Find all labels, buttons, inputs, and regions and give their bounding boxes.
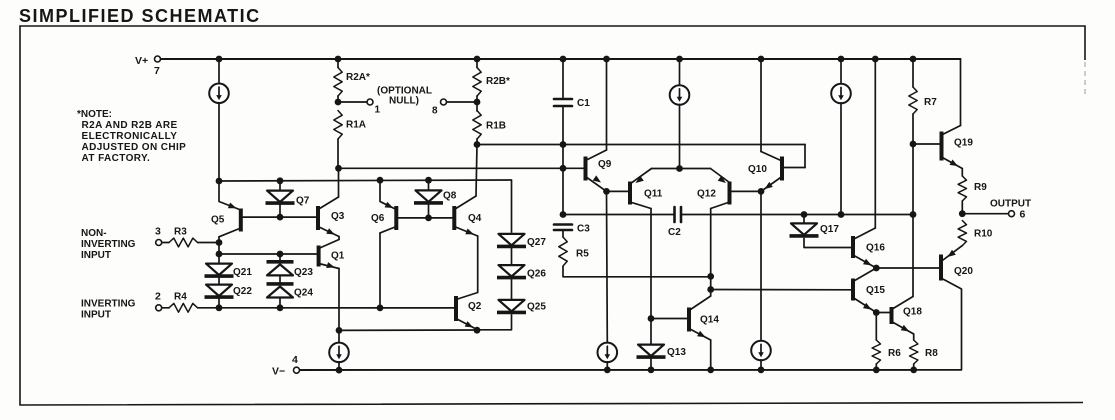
svg-text:R5: R5 bbox=[576, 249, 589, 260]
wire Q6 emitter diagonal bbox=[380, 180, 396, 209]
wire Q1 emitter drop bbox=[338, 269, 340, 331]
svg-text:3: 3 bbox=[155, 226, 161, 238]
svg-text:Q9: Q9 bbox=[598, 159, 612, 170]
wire Q25 to source rail bbox=[477, 314, 512, 330]
wire R8 bottom lead bbox=[913, 364, 915, 370]
svg-text:INVERTING: INVERTING bbox=[81, 299, 136, 310]
diode Q27 bbox=[497, 234, 526, 247]
wire pin 8 to R2B bbox=[447, 101, 477, 103]
wire Q21-Q22 bbox=[218, 278, 220, 284]
border right faint bbox=[1084, 62, 1086, 96]
svg-text:7: 7 bbox=[154, 65, 160, 77]
diode Q23 bbox=[267, 262, 294, 276]
svg-text:Q4: Q4 bbox=[468, 213, 482, 224]
junction Q3 collector / R1A / Q9-base wire bbox=[335, 165, 342, 172]
svg-text:Q7: Q7 bbox=[296, 196, 310, 207]
resistor R4 bbox=[169, 303, 198, 312]
transistor Q2 bbox=[456, 293, 478, 330]
junction rail / Q17 bbox=[801, 211, 808, 218]
svg-text:R1A: R1A bbox=[346, 120, 366, 131]
svg-text:R2A AND R2B ARE: R2A AND R2B ARE bbox=[82, 120, 178, 131]
wire Q8 anode bbox=[428, 180, 430, 189]
wire R6 bottom lead bbox=[875, 364, 877, 370]
wire I5 bottom lead bbox=[760, 360, 762, 370]
junction output node bbox=[959, 210, 966, 217]
junction V+ / Q16 collector bbox=[872, 56, 879, 63]
svg-text:Q11: Q11 bbox=[644, 189, 663, 200]
wire R1A bottom bbox=[337, 139, 339, 168]
svg-text:6: 6 bbox=[1020, 209, 1026, 221]
wire I6 bottom lead bbox=[338, 362, 340, 370]
junction Q6 collector / inverting wire bbox=[377, 305, 384, 312]
wire Q3 collector to Q9 base bbox=[339, 167, 586, 169]
wire Q19 base bbox=[913, 143, 942, 145]
wire load rail bbox=[219, 180, 512, 181]
wire Q17 to Q16 base bbox=[804, 238, 853, 248]
wire Q3 collector riser bbox=[338, 168, 340, 197]
diode Q17 bbox=[790, 223, 819, 236]
current source I6 bbox=[329, 343, 349, 363]
svg-text:Q10: Q10 bbox=[748, 164, 767, 175]
diode Q24 bbox=[267, 284, 294, 298]
svg-text:Q17: Q17 bbox=[820, 224, 839, 235]
wire Q2 base bbox=[380, 307, 456, 309]
wire I2 to pair node bbox=[679, 104, 681, 168]
wire R3 to Q5 collector bbox=[198, 242, 219, 244]
transistor Q20 bbox=[941, 246, 962, 289]
diode Q7 bbox=[266, 191, 295, 204]
wire C1 top lead bbox=[562, 59, 564, 99]
wire Q19 emitter to R9 bbox=[961, 169, 963, 177]
wire I6 top lead bbox=[338, 330, 340, 343]
svg-text:Q20: Q20 bbox=[954, 266, 973, 277]
svg-text:ELECTRONICALLY: ELECTRONICALLY bbox=[82, 131, 178, 142]
junction Q23 string / inverting wire bbox=[277, 304, 284, 311]
svg-text:INPUT: INPUT bbox=[81, 310, 111, 321]
wire Q9 emitter to Q11 base bbox=[607, 190, 629, 192]
junction rail / I3 bbox=[838, 211, 845, 218]
svg-text:NON-: NON- bbox=[81, 228, 107, 239]
resistor R2B bbox=[473, 68, 481, 97]
svg-text:R2A*: R2A* bbox=[346, 72, 370, 83]
wire Q14 base bbox=[651, 318, 689, 320]
junction R7 / Q19 base bbox=[910, 141, 917, 148]
wire pin2 to R4 bbox=[162, 307, 169, 309]
capacitor C1 bbox=[554, 99, 572, 106]
wire Q13 cathode bbox=[650, 359, 652, 370]
junction V- / R6 bbox=[873, 367, 880, 374]
svg-text:R3: R3 bbox=[174, 227, 187, 238]
wire C1 bottom lead bbox=[562, 106, 564, 145]
transistor Q10 bbox=[761, 152, 782, 192]
current source I1 bbox=[209, 84, 229, 104]
wire link R7 node to output rail bbox=[912, 144, 914, 215]
junction Q2 emitter / source rail bbox=[474, 327, 481, 334]
svg-text:*NOTE:: *NOTE: bbox=[77, 109, 112, 120]
junction source rail / I6 top bbox=[336, 327, 343, 334]
wire Q11 collector drop bbox=[650, 209, 652, 319]
resistor R7 bbox=[909, 87, 917, 114]
transistor Q12 bbox=[711, 182, 730, 209]
wire R6 top lead bbox=[875, 313, 877, 341]
transistor Q16 bbox=[853, 228, 876, 268]
capacitor C2 bbox=[675, 207, 682, 222]
junction Q16 emitter / Q15 collector bbox=[873, 265, 880, 272]
svg-text:4: 4 bbox=[292, 354, 298, 366]
wire Q5 base to Q7/Q3 bbox=[241, 216, 318, 218]
wire R2A-R1A bbox=[337, 96, 339, 102]
diode Q21 bbox=[205, 264, 234, 277]
svg-text:NULL): NULL) bbox=[389, 96, 419, 107]
transistor Q1 bbox=[319, 240, 339, 269]
junction V+ / R2A bbox=[335, 56, 342, 63]
wire I2 top lead bbox=[679, 59, 681, 86]
svg-text:Q3: Q3 bbox=[331, 211, 345, 222]
resistor R10 bbox=[958, 221, 966, 246]
wire Q10 collector riser bbox=[760, 59, 762, 152]
svg-text:ADJUSTED ON CHIP: ADJUSTED ON CHIP bbox=[82, 142, 187, 153]
wire Q17 anode bbox=[803, 215, 805, 223]
junction V+ / Q9 collector bbox=[603, 56, 610, 63]
wire I1 top lead bbox=[218, 59, 220, 84]
wire inverting rail bbox=[219, 307, 380, 309]
current source I5 (Q10 emitter) bbox=[751, 341, 771, 361]
wire output bbox=[962, 213, 1008, 215]
svg-text:Q15: Q15 bbox=[866, 285, 885, 296]
transistor Q5 bbox=[219, 209, 241, 237]
wire Q4 emitter to Q2 collector bbox=[477, 236, 479, 293]
svg-text:C1: C1 bbox=[577, 98, 590, 109]
wire Q3 emitter to Q1 collector bbox=[338, 237, 340, 240]
wire Q9 emitter to I4 bbox=[606, 191, 609, 343]
transistor Q3 bbox=[318, 197, 339, 237]
svg-text:Q8: Q8 bbox=[443, 191, 457, 202]
diode Q13 bbox=[637, 345, 666, 358]
svg-text:C3: C3 bbox=[577, 224, 590, 235]
junction V+ / R7 bbox=[910, 56, 917, 63]
junction Q9 base / C column bbox=[560, 165, 567, 172]
diode Q22 bbox=[205, 285, 234, 298]
svg-text:R2B*: R2B* bbox=[486, 76, 510, 87]
wire x563 link bbox=[562, 145, 564, 215]
junction load rail / Q6 emitter bbox=[377, 177, 384, 184]
svg-text:2: 2 bbox=[155, 291, 161, 303]
junction V+ / R2B bbox=[474, 56, 481, 63]
junction V+ / I1 bbox=[216, 56, 223, 63]
wire Q15 base bbox=[711, 289, 853, 291]
junction R2A/R1A/null-1 bbox=[335, 99, 342, 106]
wire Q27-Q26 bbox=[511, 248, 513, 264]
svg-text:Q27: Q27 bbox=[527, 237, 546, 248]
terminal pin 4 (V-) bbox=[294, 367, 300, 373]
wire R1B to Q4 collector bbox=[476, 145, 477, 197]
wire Q12 collector drop bbox=[710, 209, 712, 297]
svg-text:V−: V− bbox=[272, 366, 285, 378]
svg-text:Q23: Q23 bbox=[294, 267, 313, 278]
wire C3 node rail bbox=[563, 214, 675, 216]
svg-text:R8: R8 bbox=[925, 348, 938, 359]
resistor R9 bbox=[958, 176, 966, 201]
svg-text:Q2: Q2 bbox=[468, 301, 482, 312]
wire Q12 base bbox=[730, 190, 762, 192]
junction Q11 collector / Q14 base bbox=[648, 315, 655, 322]
junction V- / I4 bbox=[604, 367, 611, 374]
wire Q5 collector drop bbox=[218, 237, 220, 263]
wire wing right bbox=[680, 168, 711, 170]
wire Q23 top lead bbox=[279, 254, 281, 262]
transistor Q11 bbox=[630, 182, 651, 209]
junction I1 / Q5 emitter / load rail bbox=[216, 178, 223, 185]
svg-text:R1B: R1B bbox=[486, 121, 506, 132]
junction Q8 cathode bbox=[425, 215, 432, 222]
svg-text:Q5: Q5 bbox=[211, 215, 225, 226]
wire Q5 emitter diagonal bbox=[219, 181, 241, 210]
svg-text:8: 8 bbox=[432, 106, 438, 117]
wire bias rail bbox=[477, 144, 805, 146]
svg-text:Q21: Q21 bbox=[233, 267, 252, 278]
wire V+ rail bbox=[161, 58, 961, 60]
wire Q24 bottom lead bbox=[279, 298, 281, 308]
diode Q25 bbox=[497, 300, 526, 313]
junction V+ / C1 bbox=[560, 56, 567, 63]
wire R9 to output node bbox=[961, 201, 963, 214]
wire Q7 cathode bbox=[279, 205, 281, 217]
capacitor C3 bbox=[554, 225, 572, 231]
svg-text:Q18: Q18 bbox=[903, 307, 922, 318]
svg-text:AT FACTORY.: AT FACTORY. bbox=[82, 153, 151, 164]
wire R4 to Q21 node bbox=[198, 307, 219, 309]
junction Q9 emitter / Q11 base bbox=[603, 188, 610, 195]
resistor R1A bbox=[334, 111, 342, 140]
junction load rail / Q8 bbox=[425, 177, 432, 184]
junction V+ / Q10 collector bbox=[758, 56, 765, 63]
wire Q16 collector riser bbox=[874, 59, 876, 228]
svg-text:Q22: Q22 bbox=[233, 286, 252, 297]
svg-text:Q26: Q26 bbox=[527, 269, 546, 280]
wire R2A top lead bbox=[337, 59, 339, 68]
wire Q7 anode bbox=[279, 181, 281, 190]
wire Q1 base bbox=[219, 253, 319, 255]
svg-text:Q19: Q19 bbox=[954, 138, 973, 149]
terminal pin 3 bbox=[156, 240, 162, 246]
junction Q15 emitter / Q18 base bbox=[873, 309, 880, 316]
junction Q10 emitter / Q12 base bbox=[758, 188, 765, 195]
terminal pin 8 bbox=[441, 99, 447, 105]
svg-text:Q24: Q24 bbox=[294, 288, 313, 299]
wire Q6 collector drop bbox=[379, 233, 381, 308]
svg-text:Q1: Q1 bbox=[331, 251, 345, 262]
svg-text:R10: R10 bbox=[974, 229, 993, 240]
wire Q10 base riser bbox=[804, 145, 806, 168]
transistor Q18 bbox=[892, 297, 914, 335]
wire Q9 collector riser bbox=[606, 59, 608, 150]
junction R2B/R1B/null-8 bbox=[474, 99, 481, 106]
junction V+ / I3 bbox=[838, 56, 845, 63]
diode Q8 bbox=[414, 190, 443, 203]
junction Q21 string / inverting wire bbox=[216, 304, 223, 311]
wire Q18 emitter to R8 bbox=[913, 334, 915, 340]
junction V- / R8 bbox=[910, 367, 917, 374]
terminal pin 1 bbox=[367, 99, 373, 105]
junction V- / I6 bbox=[336, 367, 343, 374]
junction base wire / Q21 bbox=[216, 251, 223, 258]
svg-text:INVERTING: INVERTING bbox=[81, 239, 136, 250]
current source I4 (Q9 emitter) bbox=[598, 343, 618, 363]
wire Q10 emitter to I5 bbox=[760, 191, 762, 341]
resistor R2A bbox=[334, 68, 342, 97]
junction bias rail / C1 column bbox=[560, 141, 567, 148]
terminal pin 6 (OUTPUT) bbox=[1009, 211, 1015, 217]
svg-text:1: 1 bbox=[375, 105, 381, 116]
wire R7 top lead bbox=[912, 59, 914, 87]
junction V+ / tail source bbox=[676, 56, 683, 63]
wire I3 to rail bbox=[840, 103, 842, 215]
transistor Q9 bbox=[586, 150, 607, 191]
wire I4 bottom lead bbox=[606, 362, 608, 370]
wire Q11 emitter diagonal bbox=[632, 169, 652, 183]
wire Q20 collector to V- rail bbox=[914, 289, 962, 370]
svg-text:R6: R6 bbox=[888, 348, 901, 359]
resistor R5 bbox=[559, 237, 567, 266]
svg-text:R9: R9 bbox=[974, 182, 987, 193]
svg-text:V+: V+ bbox=[135, 55, 148, 67]
wire V- rail bbox=[300, 369, 914, 371]
current source I3 bbox=[831, 84, 851, 104]
wire Q10 base lead bbox=[782, 167, 805, 169]
junction R1B / bias rail bbox=[474, 141, 481, 148]
wire Q26-Q25 bbox=[511, 279, 513, 298]
transistor Q4 bbox=[454, 196, 477, 236]
junction R5 / Q12 collector bbox=[707, 273, 714, 280]
wire wing left bbox=[652, 168, 680, 170]
svg-text:Q12: Q12 bbox=[697, 189, 716, 200]
junction V- / I5 bbox=[758, 367, 765, 374]
transistor Q15 bbox=[853, 268, 876, 313]
diode Q26 bbox=[497, 265, 526, 278]
wire Q6 base to Q4 base bbox=[396, 217, 454, 219]
wire Q8 cathode bbox=[428, 205, 430, 218]
wire load rail to Q27 bbox=[511, 180, 513, 233]
svg-text:Q16: Q16 bbox=[866, 243, 885, 254]
wire Q12 emitter diagonal bbox=[711, 169, 730, 183]
wire R5 to Q12 collector bbox=[563, 266, 711, 277]
svg-text:INPUT: INPUT bbox=[81, 250, 111, 261]
junction rail / C3 top bbox=[560, 211, 567, 218]
svg-text:C2: C2 bbox=[668, 227, 681, 238]
wire I1 to Q5 emitter node bbox=[218, 103, 220, 181]
wire Q22 cathode bbox=[218, 299, 220, 308]
junction load rail / Q7 bbox=[277, 177, 284, 184]
junction tail node bbox=[676, 165, 683, 172]
junction Q14 collector / Q15 base wire bbox=[707, 286, 714, 293]
resistor R3 bbox=[169, 238, 198, 247]
junction Q7 cathode bbox=[277, 214, 284, 221]
wire R7 bottom lead bbox=[912, 114, 914, 144]
resistor R6 bbox=[872, 340, 880, 364]
wire Q18 collector riser bbox=[912, 215, 914, 297]
svg-text:Q25: Q25 bbox=[527, 302, 546, 313]
transistor Q19 bbox=[942, 126, 963, 169]
svg-text:Q6: Q6 bbox=[371, 213, 385, 224]
wire Q20 base bbox=[876, 267, 941, 269]
wire to null pin 1 bbox=[338, 101, 367, 103]
wire C2 right rail bbox=[681, 214, 913, 216]
terminal pin 2 bbox=[156, 305, 162, 311]
wire I3 top lead bbox=[840, 59, 842, 84]
wire Q18 base bbox=[876, 312, 891, 314]
junction Q5 collector / R3 bbox=[216, 239, 223, 246]
wire Q14 emitter drop bbox=[710, 340, 712, 370]
terminal pin 7 (V+) bbox=[155, 56, 161, 62]
junction V- / Q13 bbox=[648, 367, 655, 374]
wire Q19 collector riser bbox=[960, 59, 962, 126]
svg-text:R7: R7 bbox=[924, 97, 937, 108]
wire C3-R5 bbox=[562, 230, 564, 237]
svg-text:Q13: Q13 bbox=[667, 347, 686, 358]
wire Q13 anode bbox=[650, 319, 652, 344]
svg-text:Q14: Q14 bbox=[700, 315, 719, 326]
current source I2 bbox=[670, 85, 690, 105]
junction Q23 top bbox=[277, 251, 284, 258]
transistor Q14 bbox=[689, 296, 711, 340]
resistor R8 bbox=[910, 340, 918, 364]
junction V- / Q14 emitter bbox=[707, 367, 714, 374]
wire R1B bottom bbox=[476, 139, 478, 145]
svg-text:SIMPLIFIED SCHEMATIC: SIMPLIFIED SCHEMATIC bbox=[19, 6, 261, 26]
wire pin3 to R3 bbox=[162, 242, 169, 244]
wire Q23-Q24 bbox=[279, 276, 281, 284]
resistor R1B bbox=[473, 111, 481, 140]
wire R2B-R1B bbox=[476, 96, 478, 111]
wire source rail bbox=[339, 329, 477, 331]
transistor Q6 bbox=[380, 206, 396, 233]
wire R2B top lead bbox=[476, 59, 478, 68]
junction rail / R7 column bbox=[910, 211, 917, 218]
svg-text:R4: R4 bbox=[174, 292, 187, 303]
